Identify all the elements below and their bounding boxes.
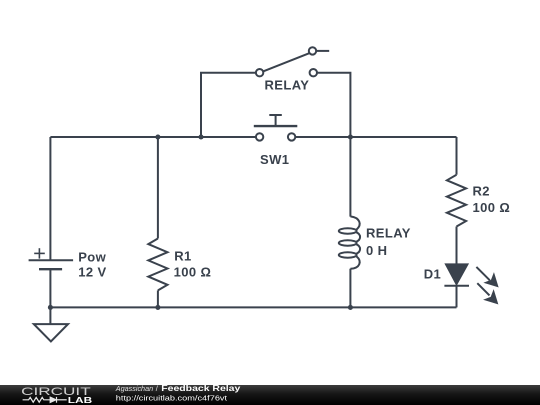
svg-text:R2: R2 (473, 184, 490, 199)
junction: node C (coil top at rail) (348, 134, 353, 139)
svg-text:12 V: 12 V (78, 264, 106, 279)
svg-text:Agassichan: Agassichan (115, 384, 153, 393)
relay contact RELAY (SPDT switch) (256, 47, 329, 76)
LED D1 (444, 264, 498, 304)
wire: D1 cathode lead to bottom rail (456, 286, 458, 308)
wire: bottom rail (50, 306, 456, 308)
label: 100 Ohm (R1 value) (174, 264, 212, 279)
label: 0 H (coil value) (366, 243, 387, 258)
wire: coil bottom lead (349, 269, 351, 308)
svg-text:D1: D1 (424, 267, 441, 282)
inductor RELAY coil (339, 216, 360, 268)
junction: node A (R1 top at rail) (155, 134, 160, 139)
label: RELAY (contact name) (265, 78, 310, 93)
wire: top rail left segment (battery + to SW1 left terminal) (50, 136, 256, 138)
label: R1 (174, 249, 191, 264)
svg-text:LAB: LAB (68, 396, 93, 405)
footer credit: Agassichan / Feedback Relay (115, 384, 241, 402)
svg-text:R1: R1 (174, 249, 191, 264)
svg-text:http://circuitlab.com/c4f76vt: http://circuitlab.com/c4f76vt (116, 395, 227, 402)
label: R2 (473, 184, 490, 199)
svg-text:RELAY: RELAY (366, 226, 411, 241)
wire: top rail right segment (SW1 right terminal to R2) (295, 136, 456, 138)
label: 12 V (battery value) (78, 264, 106, 279)
label: RELAY (coil name) (366, 226, 411, 241)
svg-text:SW1: SW1 (260, 152, 289, 167)
wire: battery negative lead (49, 269, 51, 307)
wire: R1 top lead (157, 137, 159, 239)
wire: R2 bottom lead to D1 anode (456, 227, 458, 265)
svg-text:Feedback Relay: Feedback Relay (161, 384, 241, 393)
label: SW1 (260, 152, 289, 167)
wire: relay contact right lead (317, 73, 350, 137)
resistor R1 (148, 239, 167, 291)
label: 100 Ohm (R2 value) (473, 200, 511, 215)
svg-text:0 H: 0 H (366, 243, 387, 258)
svg-text:100 Ω: 100 Ω (473, 200, 511, 215)
junction: ground node (48, 305, 53, 310)
junction: R1 bottom node (155, 305, 160, 310)
pushbutton SW1 (254, 115, 297, 141)
label: Pow (78, 249, 106, 264)
svg-text:100 Ω: 100 Ω (174, 264, 212, 279)
junction: coil bottom node (348, 305, 353, 310)
ground (34, 307, 68, 341)
battery Pow (voltage source) (29, 248, 74, 269)
CircuitLab logo (21, 386, 92, 405)
wire: relay contact left lead (201, 73, 256, 137)
label: D1 (424, 267, 441, 282)
wire: R2 top lead from rail corner (456, 137, 458, 175)
svg-text:RELAY: RELAY (265, 78, 310, 93)
wire: battery positive lead (49, 137, 51, 260)
wire: coil top lead (349, 137, 351, 217)
junction: node B (relay branch at rail) (198, 134, 203, 139)
resistor R2 (447, 175, 466, 227)
wire: R1 bottom lead (157, 290, 159, 307)
svg-text:Pow: Pow (78, 249, 106, 264)
